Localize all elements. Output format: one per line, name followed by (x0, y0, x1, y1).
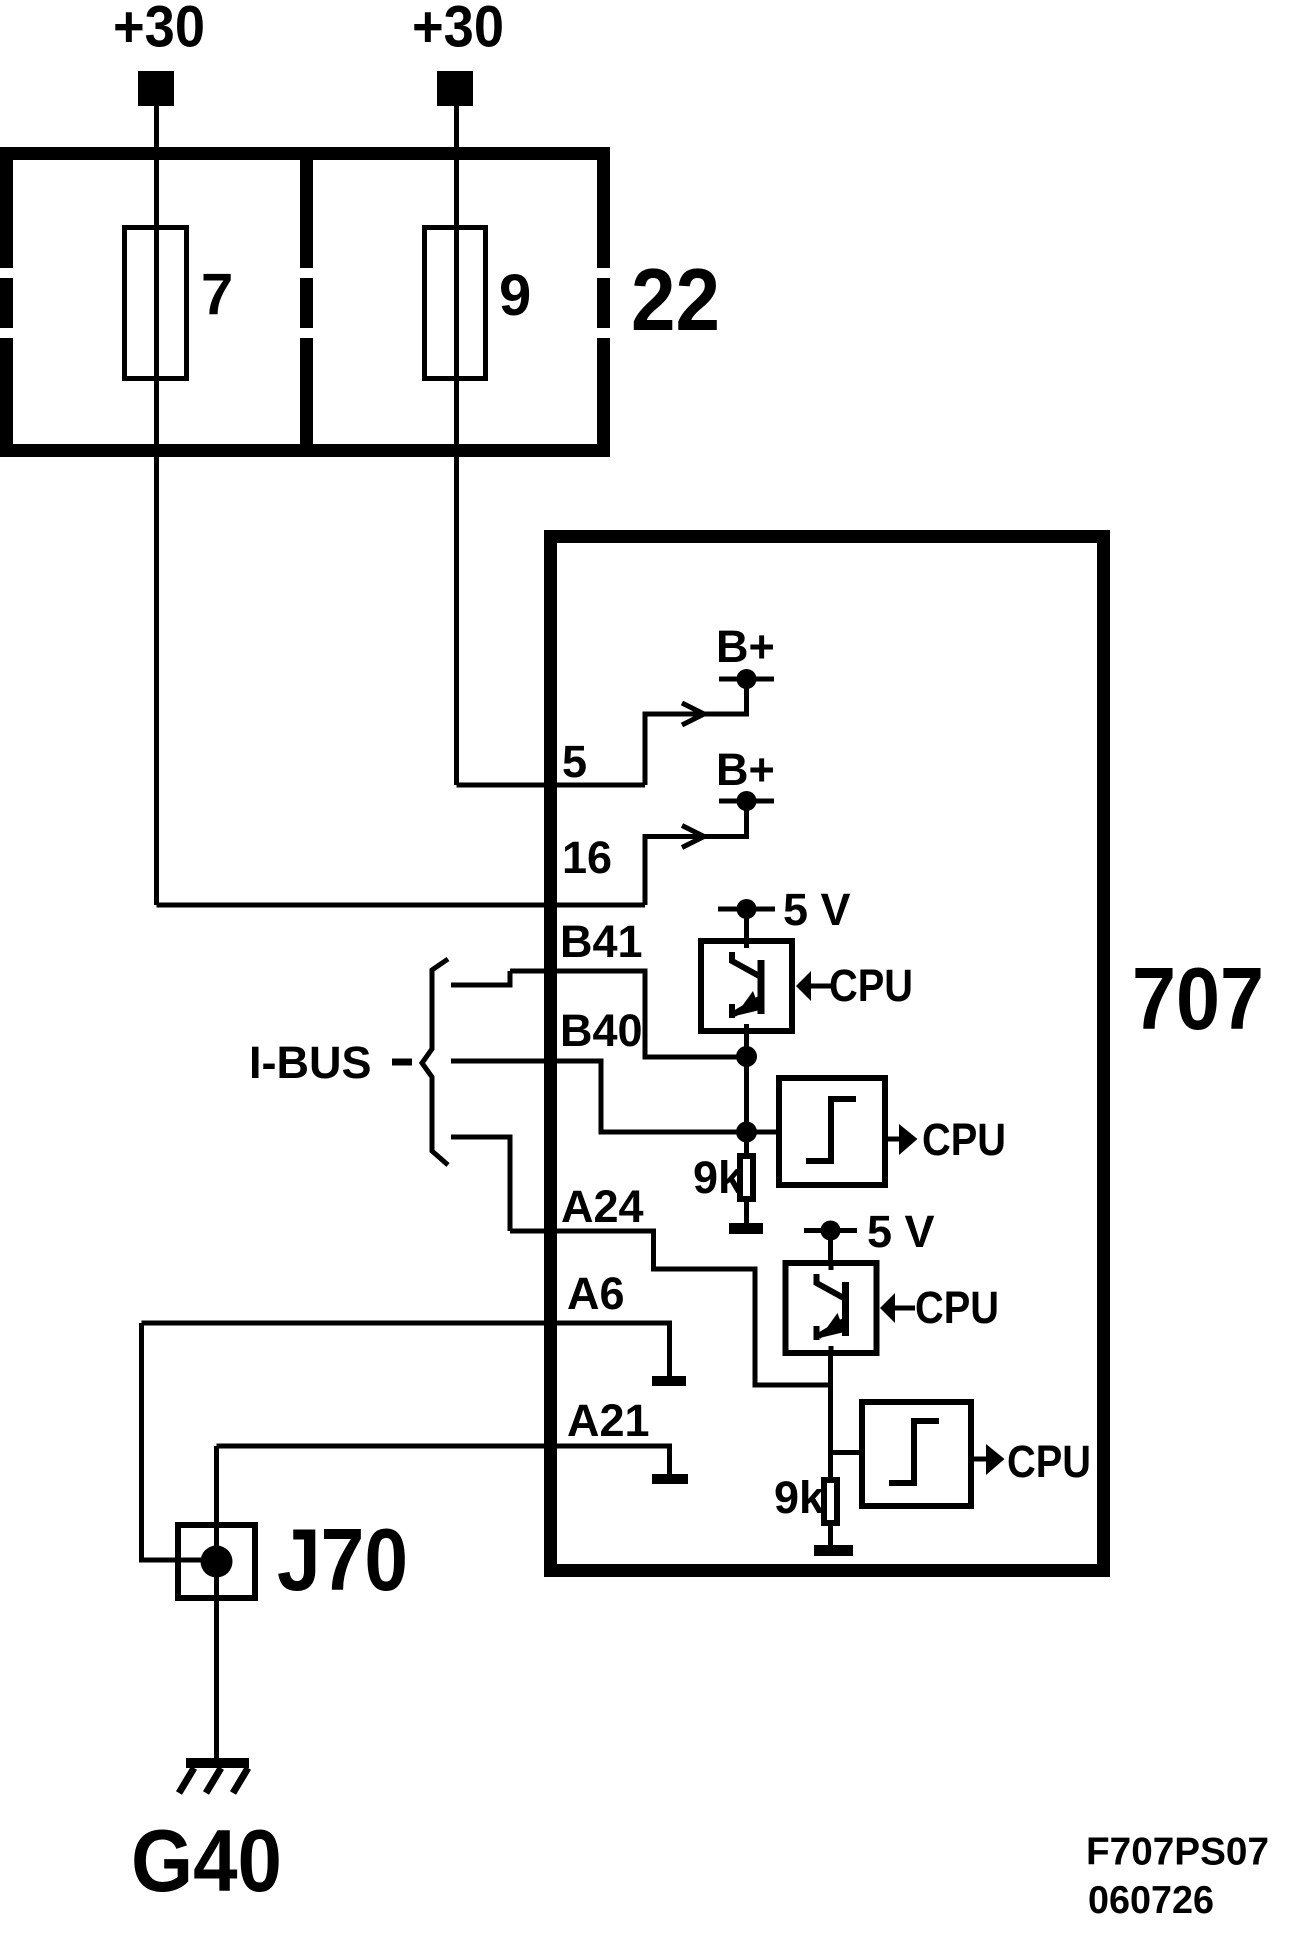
svg-text:A6: A6 (567, 1268, 625, 1319)
wire A21 to J70 (214, 1446, 219, 1601)
wire A21 ground stem (667, 1446, 672, 1474)
schmitt trigger S2 (862, 1402, 971, 1506)
optocoupler U2 (786, 1260, 877, 1356)
net B+ (upper) arrow chevron (682, 703, 704, 725)
wire U1 emitter chain vertical (744, 1034, 749, 1153)
fuse box 22 top border (0, 147, 610, 160)
net 5V (lower) bar (804, 1228, 857, 1233)
svg-text:9: 9 (499, 263, 531, 328)
net B+ (upper) dot (737, 669, 757, 689)
ground bar (A6) (652, 1376, 686, 1386)
CPU wire U2 (895, 1306, 915, 1311)
wire A6 to J70 (142, 1323, 217, 1560)
CPU arrow out of S1 (899, 1124, 918, 1155)
net 5V (lower) stub (828, 1239, 833, 1262)
svg-text:B+: B+ (716, 744, 775, 795)
wire B40 to node B (451, 1061, 776, 1132)
CPU arrow into U2 (880, 1293, 895, 1323)
ground G40 hatch 1 (179, 1768, 194, 1793)
fuse box 22 divider (dashed) (300, 160, 313, 444)
ground bar (A21) (652, 1474, 688, 1484)
svg-text:060726: 060726 (1088, 1879, 1214, 1922)
net B+ (lower) bar (719, 799, 774, 804)
svg-text:CPU: CPU (915, 1282, 999, 1333)
wire fuse 7 feed vertical (154, 106, 159, 905)
CPU wire U1 (811, 984, 831, 989)
resistor 9k (lower) (824, 1480, 837, 1523)
net 5V (lower) dot (821, 1221, 841, 1241)
wire fuse 9 feed vertical (454, 106, 459, 785)
I-BUS stub to B41 (451, 971, 510, 985)
CPU wire S1 (888, 1137, 901, 1142)
svg-text:B+: B+ (716, 621, 775, 672)
net B+ (lower) dot (737, 791, 757, 811)
wire fuse 9 to pin 5 (457, 783, 646, 788)
joint connector J70 box (178, 1525, 255, 1598)
net 5V (upper) dot (737, 899, 757, 919)
ground G40 hatch 3 (233, 1768, 248, 1793)
junction dot A (736, 1046, 757, 1067)
wire B41 to node A (510, 971, 747, 1057)
svg-text:CPU: CPU (922, 1114, 1006, 1165)
svg-text:+30: +30 (412, 0, 504, 60)
svg-text:G40: G40 (131, 1811, 282, 1910)
terminal square +30 (right) (437, 71, 473, 106)
optocoupler U1 (701, 938, 792, 1034)
svg-text:16: 16 (562, 832, 612, 883)
wire A6 ground stem (667, 1323, 672, 1376)
wire fuse 7 to pin 16 (157, 903, 646, 908)
wire 9k (upper) to ground (744, 1202, 749, 1223)
net B+ (lower) arrow chevron (682, 826, 704, 848)
net 5V (upper) bar (718, 907, 775, 912)
svg-text:5 V: 5 V (783, 884, 851, 935)
ground bar (upper 9k) (729, 1223, 763, 1234)
svg-text:CPU: CPU (829, 960, 913, 1011)
svg-text:9k: 9k (774, 1472, 825, 1523)
svg-text:707: 707 (1132, 949, 1264, 1048)
wire J70 to G40 (214, 1601, 219, 1758)
svg-text:B40: B40 (560, 1005, 643, 1056)
net B+ (upper) wire with step (645, 684, 747, 785)
resistor 9k (upper) (740, 1156, 753, 1199)
I-BUS brace (422, 959, 448, 1165)
fuse box 22 left border (dashed) (0, 147, 13, 457)
I-BUS stub to A24 (451, 1137, 510, 1231)
svg-text:B41: B41 (560, 916, 643, 967)
svg-text:5 V: 5 V (867, 1206, 935, 1257)
wire A24 to U2 (510, 1231, 831, 1385)
I-BUS dash (392, 1059, 412, 1066)
svg-text:+30: +30 (113, 0, 205, 60)
svg-text:J70: J70 (277, 1510, 408, 1609)
svg-text:7: 7 (201, 262, 233, 327)
terminal square +30 (left) (138, 71, 174, 106)
fuse 7 body (125, 228, 187, 379)
svg-text:A24: A24 (561, 1181, 644, 1232)
CPU arrow into U1 (796, 971, 811, 1001)
ground G40 hatch 2 (206, 1768, 221, 1793)
junction dot B (736, 1122, 757, 1143)
svg-text:5: 5 (562, 736, 587, 787)
net 5V (upper) stub (744, 914, 749, 938)
svg-text:CPU: CPU (1007, 1436, 1091, 1487)
ECU box 707 (551, 537, 1104, 1571)
svg-text:9k: 9k (693, 1152, 744, 1203)
CPU arrow out of S2 (986, 1444, 1005, 1475)
wire A21 (217, 1444, 673, 1449)
wire to schmitt S2 input (831, 1450, 860, 1455)
net B+ (lower) wire with step (645, 806, 747, 905)
svg-text:F707PS07: F707PS07 (1086, 1831, 1269, 1874)
wire A6 (142, 1321, 673, 1326)
fuse box 22 right border (dashed) (597, 147, 610, 457)
ground bar (lower 9k) (814, 1545, 853, 1556)
svg-text:I-BUS: I-BUS (249, 1037, 372, 1088)
schmitt trigger S1 (779, 1078, 885, 1185)
joint connector J70 dot (201, 1546, 233, 1578)
svg-text:22: 22 (631, 250, 720, 349)
svg-text:A21: A21 (567, 1395, 650, 1446)
CPU wire S2 (971, 1457, 988, 1462)
wire 9k (lower) to ground (828, 1526, 833, 1545)
wire U2 emitter chain vertical (828, 1356, 833, 1477)
fuse box 22 bottom border (0, 444, 610, 457)
net B+ (upper) bar (719, 677, 774, 682)
ground G40 symbol bar (186, 1758, 249, 1768)
fuse 9 body (425, 228, 486, 379)
